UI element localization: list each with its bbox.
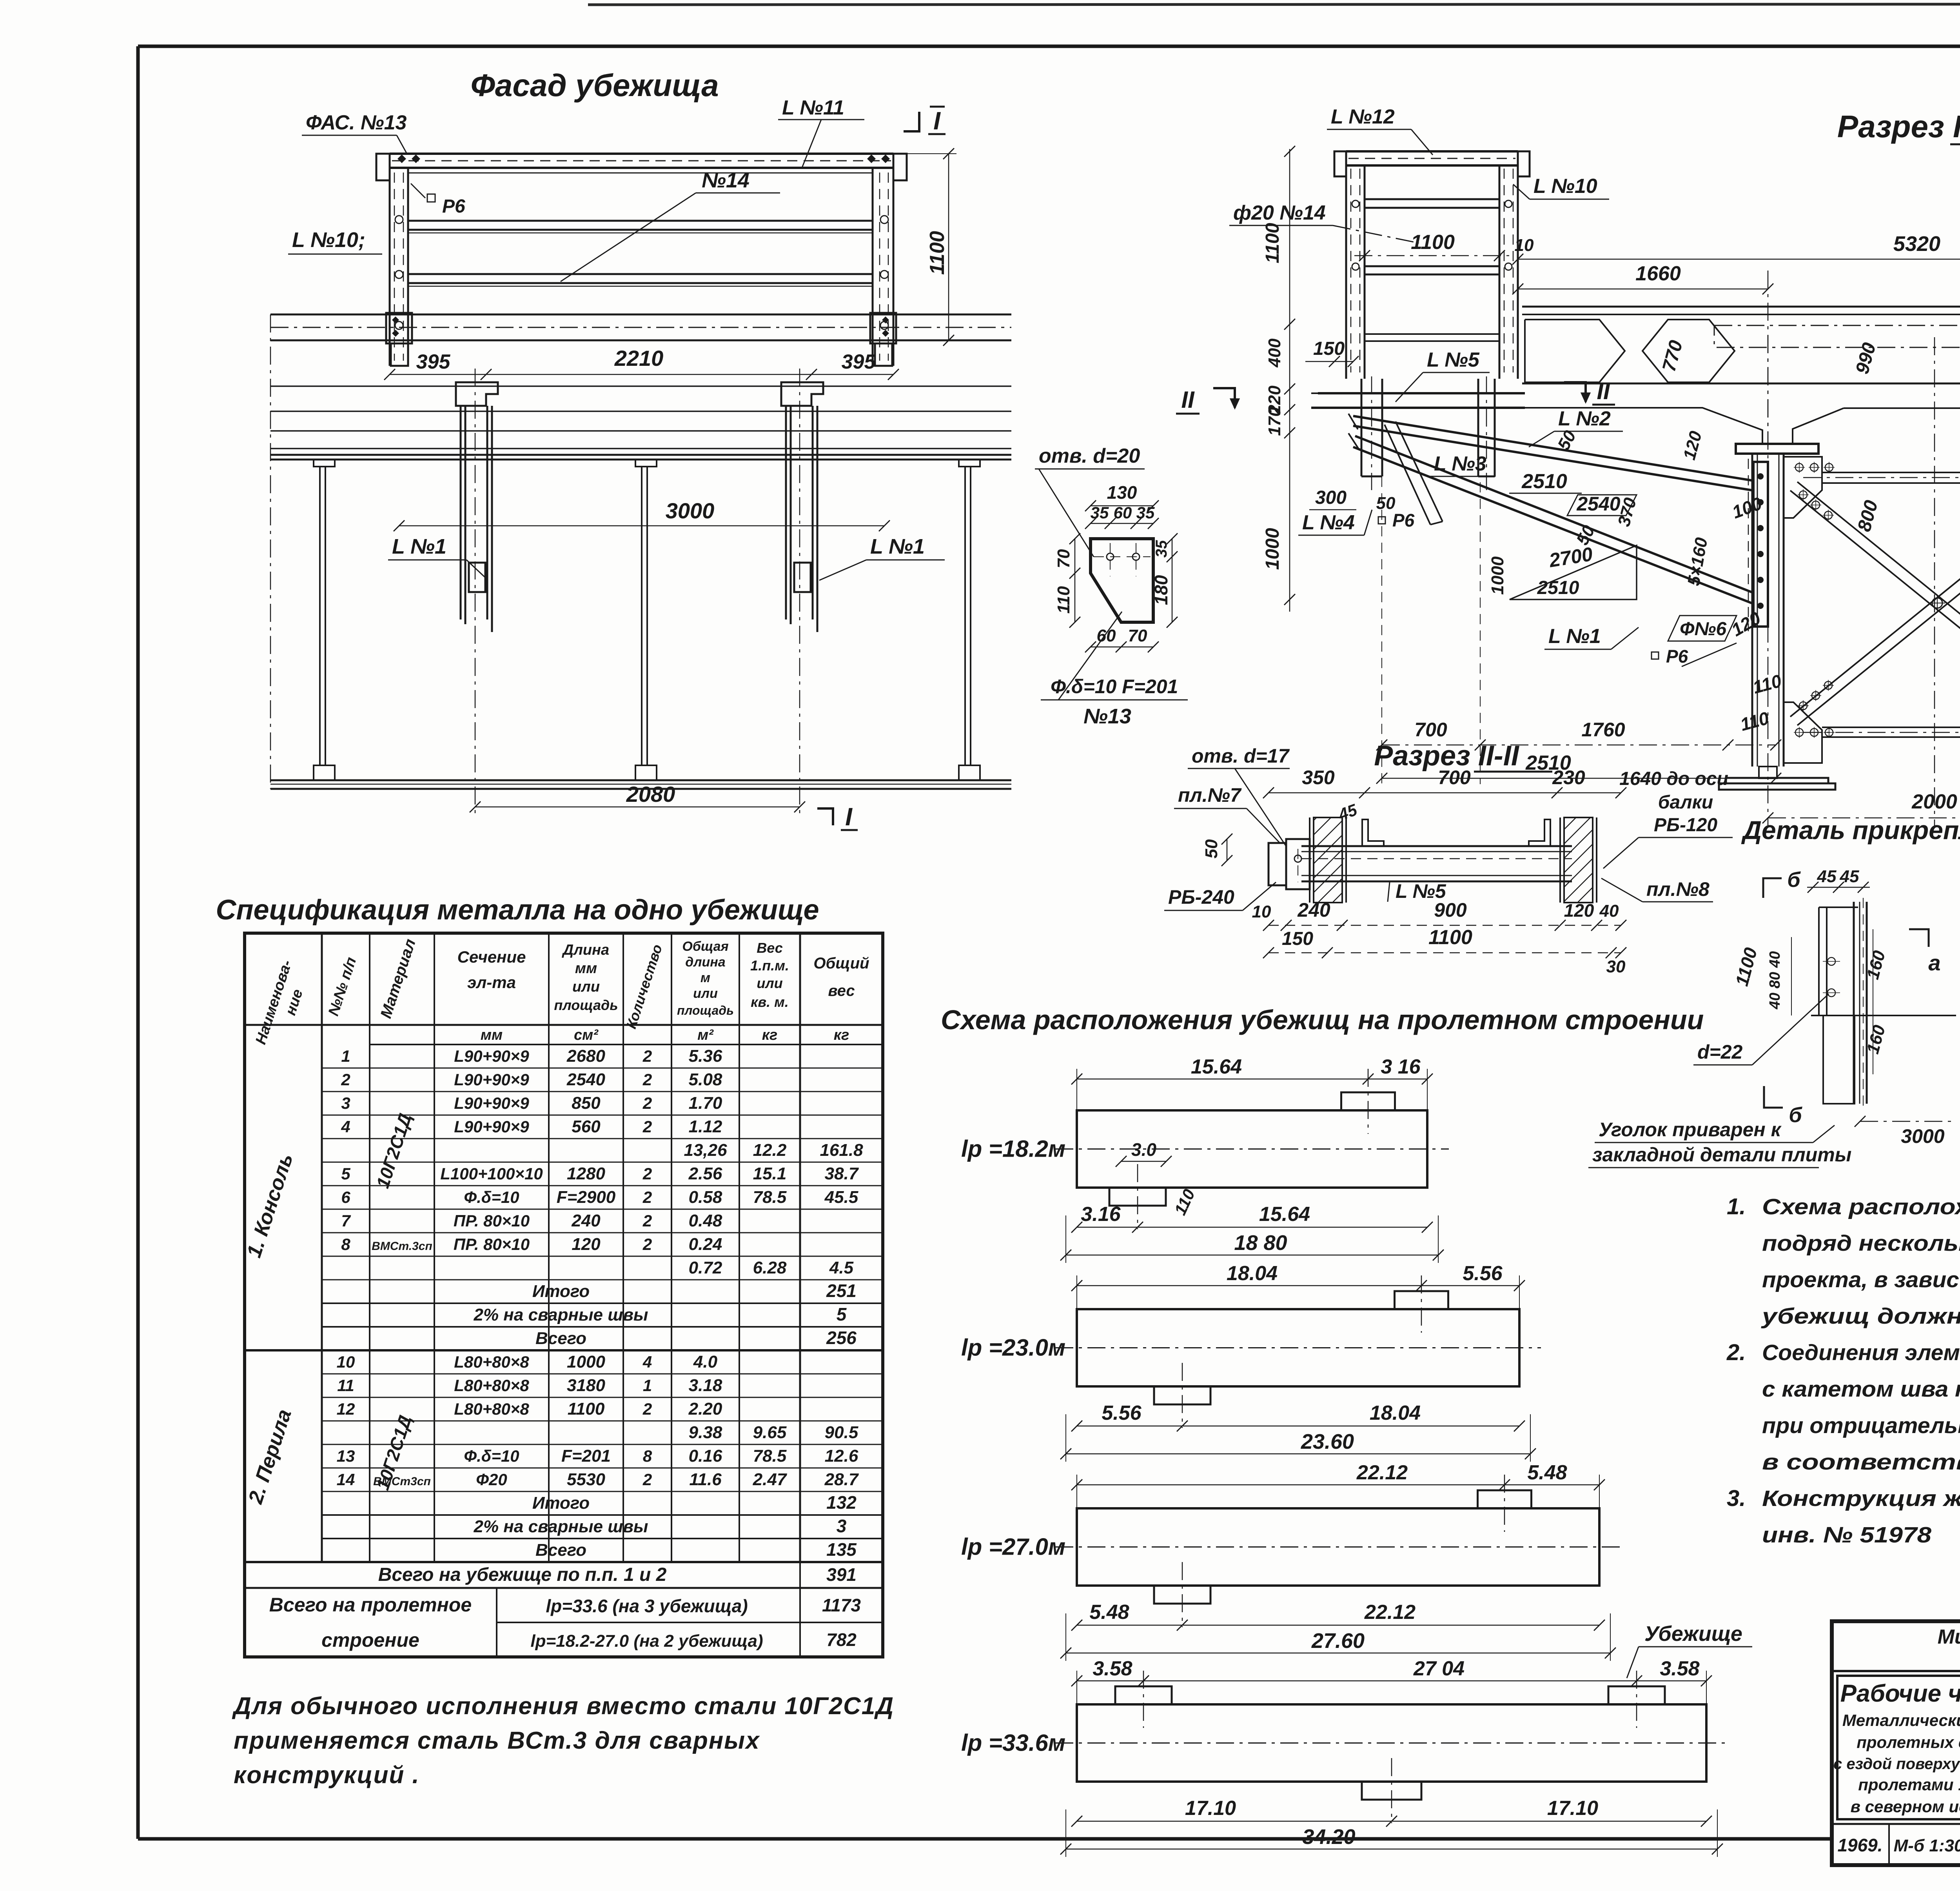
svg-text:2510: 2510	[1521, 470, 1567, 493]
svg-text:2540: 2540	[1576, 493, 1620, 515]
bottom horizontal chord (double)	[1822, 727, 1960, 728]
svg-text:12.6: 12.6	[825, 1446, 858, 1466]
label Р6 with weld square (bracket)	[1378, 517, 1385, 524]
svg-text:L №2: L №2	[1558, 407, 1611, 430]
svg-text:4: 4	[642, 1353, 652, 1371]
dim 5320	[1518, 259, 1960, 260]
left hanger assembly L№1	[456, 382, 498, 406]
table row 10	[322, 1279, 883, 1281]
svg-text:Фасад убежища: Фасад убежища	[470, 68, 719, 103]
left column cap plate	[1736, 444, 1818, 454]
svg-text:5.56: 5.56	[1102, 1402, 1142, 1424]
section mark I (bottom)	[817, 808, 833, 825]
small angle clips on top	[1362, 819, 1384, 846]
svg-text:5: 5	[837, 1304, 847, 1324]
svg-text:б: б	[1789, 1103, 1802, 1127]
svg-text:13,26: 13,26	[684, 1141, 727, 1160]
span centreline	[1055, 1148, 1449, 1150]
svg-text:2.56: 2.56	[688, 1164, 722, 1183]
bottom dim chain 700/1760/110	[1382, 745, 1776, 746]
svg-text:18 80: 18 80	[1234, 1231, 1287, 1255]
table row 20	[322, 1514, 883, 1516]
svg-text:Убежище: Убежище	[1644, 1622, 1742, 1646]
girder web fish outline B	[1642, 320, 1735, 382]
svg-text:1000: 1000	[567, 1352, 605, 1371]
svg-text:в северном исполнении: в северном исполнении	[1851, 1797, 1960, 1816]
svg-text:d=22: d=22	[1697, 1041, 1743, 1063]
svg-text:1760: 1760	[1581, 719, 1625, 741]
svg-text:L90+90×9: L90+90×9	[454, 1094, 529, 1112]
shelter floor between posts	[1365, 333, 1499, 335]
scan artifact line top edge	[588, 4, 1960, 5]
svg-text:2510: 2510	[1537, 578, 1579, 598]
svg-text:40: 40	[1599, 901, 1619, 921]
right hanger assembly L№1	[781, 382, 823, 406]
svg-text:2.: 2.	[1726, 1340, 1746, 1365]
svg-text:Всего: Всего	[535, 1540, 586, 1560]
svg-text:балки: балки	[1658, 792, 1713, 813]
girder web fish outline A	[1525, 320, 1625, 382]
svg-text:35: 35	[1153, 540, 1170, 558]
sheet border frame	[138, 45, 1960, 48]
svg-text:3000: 3000	[666, 498, 715, 523]
column centrelines	[1768, 335, 1769, 827]
svg-text:300: 300	[1315, 487, 1347, 508]
svg-text:3180: 3180	[567, 1376, 605, 1395]
svg-text:700: 700	[1414, 719, 1447, 741]
middle rail 1	[408, 220, 873, 222]
svg-text:1000: 1000	[1488, 556, 1507, 595]
X bracing diagonal 2	[1790, 490, 1960, 725]
svg-text:50: 50	[1376, 494, 1396, 513]
bottom flange lower edge with bearing funnels	[1522, 408, 1762, 444]
svg-text:отв. d=20: отв. d=20	[1039, 445, 1140, 467]
svg-text:L №11: L №11	[782, 96, 844, 119]
svg-text:3 16: 3 16	[1381, 1055, 1421, 1078]
table row 14	[322, 1373, 883, 1375]
svg-text:395: 395	[416, 351, 451, 373]
main girder bottom flange	[1522, 383, 1960, 385]
deck band 3	[270, 430, 1011, 432]
svg-text:9.65: 9.65	[753, 1423, 787, 1442]
overall dimension	[1066, 1255, 1438, 1256]
detail 1: post channel	[1853, 902, 1855, 1104]
svg-text:900: 900	[1434, 899, 1467, 921]
svg-text:8: 8	[341, 1235, 350, 1253]
svg-text:4.5: 4.5	[829, 1258, 854, 1277]
svg-text:6: 6	[341, 1188, 350, 1206]
table row 22	[322, 1561, 883, 1563]
svg-text:Деталь прикрепления стоек п: Деталь прикрепления стоек перил	[1741, 816, 1960, 845]
svg-text:2: 2	[642, 1212, 652, 1230]
right thin hanger post	[959, 460, 980, 467]
svg-text:132: 132	[826, 1492, 857, 1513]
span diagram lp =23.0м	[1077, 1309, 1519, 1386]
svg-text:350: 350	[1302, 767, 1335, 788]
svg-text:Итого: Итого	[532, 1493, 590, 1513]
svg-text:10: 10	[1515, 236, 1534, 255]
svg-text:3.18: 3.18	[689, 1376, 722, 1395]
svg-text:1: 1	[643, 1376, 652, 1395]
svg-text:18.04: 18.04	[1227, 1262, 1278, 1285]
svg-text:№13: №13	[1083, 705, 1131, 728]
table row 11	[322, 1302, 883, 1304]
shelter tab (top)	[1478, 1490, 1532, 1508]
svg-text:б: б	[1787, 868, 1801, 892]
detail 1: bolts	[1828, 957, 1835, 965]
plate №13 outline	[1091, 539, 1153, 622]
svg-text:Ф.δ=10 F=201: Ф.δ=10 F=201	[1051, 676, 1178, 698]
left post corner gusset and bolts	[376, 154, 390, 180]
svg-text:Всего на убежище по п.п.: Всего на убежище по п.п. 1 и 2	[378, 1564, 667, 1585]
plate №13 dim 130	[1091, 505, 1153, 507]
plate №13 dims 70 / 110 (left)	[1074, 539, 1076, 622]
svg-text:0.24: 0.24	[689, 1235, 722, 1254]
svg-text:15.64: 15.64	[1259, 1203, 1310, 1226]
svg-text:lp =23.0м: lp =23.0м	[961, 1335, 1065, 1361]
svg-text:256: 256	[826, 1328, 857, 1348]
svg-text:60: 60	[1114, 503, 1132, 522]
svg-text:инв. № 51978: инв. № 51978	[1762, 1522, 1931, 1548]
main girder top flange	[1522, 306, 1960, 308]
shelter tab (bottom)	[1154, 1586, 1210, 1604]
svg-text:35: 35	[1136, 503, 1155, 522]
svg-text:2.20: 2.20	[688, 1399, 722, 1419]
svg-text:395: 395	[842, 351, 876, 373]
svg-text:12.2: 12.2	[753, 1141, 787, 1160]
row: Всего на убежище по п.п. 1 и 2	[244, 1562, 245, 1562]
svg-text:14: 14	[337, 1470, 355, 1489]
top dimension line	[1077, 1285, 1519, 1286]
svg-text:5.08: 5.08	[689, 1070, 722, 1089]
bottom dim 2510	[1382, 778, 1776, 779]
svg-text:5.56: 5.56	[1463, 1262, 1503, 1285]
span centreline	[1055, 1742, 1728, 1744]
hanger centrelines	[475, 369, 476, 816]
svg-text:ВМСт.3сп: ВМСт.3сп	[372, 1240, 432, 1253]
svg-text:см²: см²	[574, 1027, 599, 1043]
sec I-I right post	[1517, 151, 1519, 379]
svg-text:Итого: Итого	[532, 1282, 590, 1301]
svg-text:L №1: L №1	[870, 535, 925, 558]
left bolt assembly РБ-240	[1269, 843, 1286, 885]
svg-text:30: 30	[1606, 957, 1626, 976]
svg-text:45.5: 45.5	[824, 1188, 858, 1207]
svg-text:2: 2	[642, 1470, 652, 1489]
svg-text:45: 45	[1817, 867, 1837, 886]
middle rail 2	[408, 273, 873, 275]
svg-text:2: 2	[642, 1047, 652, 1065]
left vertical reference lines	[270, 314, 271, 789]
svg-text:L100+100×10: L100+100×10	[440, 1164, 543, 1183]
svg-text:L №10;: L №10;	[292, 228, 365, 252]
svg-text:проекта, в зависимости от об: проекта, в зависимости от общей длины мо…	[1762, 1267, 1960, 1292]
svg-text:3.58: 3.58	[1093, 1657, 1132, 1680]
svg-text:70: 70	[1128, 626, 1147, 645]
left hatched block	[1314, 817, 1342, 903]
detail 1: backing plate	[1818, 907, 1820, 1015]
svg-text:Ф.δ=10: Ф.δ=10	[464, 1188, 519, 1206]
svg-text:Ф.δ=10: Ф.δ=10	[464, 1447, 519, 1465]
svg-text:1100: 1100	[568, 1399, 605, 1419]
svg-text:1100: 1100	[926, 231, 949, 275]
top dimension line	[1077, 1079, 1427, 1080]
svg-text:Схема расположения убежищ д: Схема расположения убежищ дана в предпол…	[1762, 1194, 1960, 1219]
svg-text:кг: кг	[762, 1027, 778, 1043]
shelter tab (top)	[1395, 1291, 1448, 1309]
svg-text:Р6: Р6	[1392, 510, 1415, 530]
svg-text:L80+80×8: L80+80×8	[454, 1376, 529, 1395]
svg-text:1173: 1173	[822, 1595, 861, 1615]
svg-text:110: 110	[1054, 586, 1073, 614]
detail 1: mark б (bottom)	[1764, 1086, 1783, 1108]
svg-text:7: 7	[341, 1212, 351, 1230]
svg-text:L №10: L №10	[1534, 175, 1597, 198]
svg-text:1100: 1100	[1262, 223, 1283, 263]
bottom dimension line	[1077, 1426, 1519, 1427]
svg-text:Р6: Р6	[1666, 646, 1688, 667]
svg-text:90.5: 90.5	[825, 1423, 858, 1442]
svg-text:5320: 5320	[1893, 232, 1940, 256]
svg-text:2680: 2680	[566, 1046, 605, 1066]
svg-text:27 04: 27 04	[1413, 1657, 1465, 1680]
bottom dimension line	[1077, 1625, 1599, 1626]
gusset bolts	[1795, 463, 1803, 471]
table row 17	[322, 1444, 883, 1445]
svg-text:240: 240	[571, 1211, 601, 1230]
svg-text:3.58: 3.58	[1660, 1657, 1699, 1680]
svg-text:0.48: 0.48	[689, 1211, 722, 1230]
span diagram lp =27.0м	[1077, 1508, 1599, 1586]
table row 15	[322, 1397, 883, 1398]
bridge deck top band (facade)	[270, 314, 1011, 316]
svg-text:2080: 2080	[626, 782, 675, 807]
svg-text:70: 70	[1054, 549, 1073, 568]
svg-text:5530: 5530	[567, 1470, 605, 1489]
centre bolt	[1932, 598, 1942, 608]
svg-text:lp =18.2м: lp =18.2м	[961, 1136, 1065, 1162]
svg-text:L №1: L №1	[1548, 625, 1601, 648]
left column shaft	[1751, 454, 1753, 767]
svg-text:15.1: 15.1	[753, 1164, 787, 1183]
spec table outer box	[245, 933, 883, 1657]
shelter tab (top)	[1115, 1686, 1172, 1704]
svg-text:180: 180	[1151, 575, 1171, 605]
svg-text:2: 2	[642, 1094, 652, 1112]
svg-text:F=201: F=201	[561, 1446, 611, 1466]
title block outer box	[1832, 1621, 1960, 1865]
detail 1: deck line	[1811, 1015, 1956, 1016]
svg-text:при отрицательной температур: при отрицательной температуре все работы…	[1762, 1413, 1960, 1438]
svg-text:Всего: Всего	[535, 1329, 586, 1348]
dash-dot splice rectangle	[1714, 325, 1960, 347]
post stubs below deck	[391, 343, 408, 366]
svg-text:0.16: 0.16	[689, 1446, 722, 1466]
dim 1100 (right side, vertical)	[948, 154, 949, 340]
svg-text:1969.: 1969.	[1837, 1835, 1882, 1855]
overall dimension	[1066, 1653, 1610, 1654]
svg-text:Общий: Общий	[813, 955, 869, 972]
top dimension line	[1077, 1680, 1706, 1682]
middle thin hanger post	[635, 460, 657, 467]
svg-text:в соответствии с требования: в соответствии с требованиями СН 363-66.	[1762, 1450, 1960, 1475]
svg-text:Р6: Р6	[442, 196, 465, 217]
svg-text:строение: строение	[321, 1629, 419, 1651]
svg-text:18.04: 18.04	[1370, 1402, 1421, 1424]
svg-text:11: 11	[337, 1376, 354, 1395]
overall dimension	[1066, 1849, 1717, 1850]
svg-text:170: 170	[1265, 407, 1284, 436]
svg-text:161.8: 161.8	[820, 1141, 863, 1160]
svg-text:2% на сварные швы: 2% на сварные швы	[473, 1305, 648, 1324]
svg-text:Ф20: Ф20	[476, 1470, 507, 1489]
svg-text:10: 10	[1252, 902, 1271, 921]
svg-text:17.10: 17.10	[1185, 1797, 1236, 1820]
svg-text:3.16: 3.16	[1081, 1203, 1121, 1226]
bottom dimension line	[1077, 1821, 1706, 1822]
svg-text:ф20 №14: ф20 №14	[1233, 202, 1326, 224]
svg-text:1.12: 1.12	[689, 1117, 722, 1136]
overall dimension	[1066, 1453, 1530, 1455]
svg-text:230: 230	[1552, 767, 1585, 788]
svg-text:50: 50	[1202, 839, 1221, 858]
table row 16	[322, 1421, 883, 1422]
svg-text:3: 3	[341, 1094, 350, 1112]
svg-text:9.38: 9.38	[689, 1423, 722, 1442]
svg-text:2: 2	[642, 1235, 652, 1253]
svg-text:пл.№8: пл.№8	[1646, 878, 1710, 900]
bracket bottom chord L№1 (double)	[1355, 436, 1753, 593]
left vertical dim chain	[1289, 149, 1290, 612]
detail 1: mark б (top)	[1763, 878, 1782, 898]
table row 8	[322, 1232, 883, 1233]
sec I-I left post	[1345, 151, 1347, 379]
svg-text:РБ-240: РБ-240	[1168, 886, 1234, 908]
svg-text:1640 до оси: 1640 до оси	[1619, 768, 1728, 789]
table row 6	[322, 1185, 883, 1186]
svg-text:34.20: 34.20	[1302, 1825, 1355, 1849]
svg-text:Рабочие чертежи: Рабочие чертежи	[1840, 1680, 1960, 1707]
svg-text:Общая: Общая	[682, 939, 728, 954]
mid vertical centreline	[1934, 337, 1935, 827]
shelter tab (top)	[1341, 1092, 1395, 1110]
svg-text:0.72: 0.72	[689, 1258, 722, 1277]
detail 1: mark a (right)	[1909, 929, 1929, 947]
svg-text:Всего на пролетное: Всего на пролетное	[269, 1594, 472, 1616]
svg-text:L90+90×9: L90+90×9	[454, 1070, 529, 1089]
svg-text:10: 10	[337, 1353, 355, 1371]
svg-text:I: I	[933, 107, 941, 135]
span diagram lp =18.2м	[1077, 1110, 1427, 1188]
svg-text:391: 391	[826, 1564, 857, 1585]
table row 18	[322, 1468, 883, 1469]
svg-text:кг: кг	[834, 1027, 849, 1043]
svg-text:150: 150	[1282, 928, 1313, 949]
svg-text:убежищ должно назначаться в: убежищ должно назначаться в соответствии…	[1760, 1304, 1960, 1329]
svg-text:I: I	[845, 803, 853, 831]
svg-text:lp =33.6м: lp =33.6м	[961, 1730, 1065, 1756]
svg-text:вес: вес	[828, 982, 855, 999]
sec II-II bottom dims 150/1100/30	[1269, 952, 1621, 954]
svg-text:М-б 1:30: М-б 1:30	[1894, 1836, 1960, 1855]
left base plates	[1726, 778, 1828, 783]
svg-text:130: 130	[1107, 482, 1137, 503]
svg-text:40 80 40: 40 80 40	[1767, 951, 1783, 1010]
svg-text:длина: длина	[685, 955, 725, 970]
shelter tab (bottom)	[1109, 1188, 1166, 1206]
svg-text:lp=33.6 (на 3 убежища): lp=33.6 (на 3 убежища)	[546, 1596, 748, 1616]
svg-text:2: 2	[642, 1117, 652, 1136]
svg-text:пл.№7: пл.№7	[1178, 784, 1242, 806]
bracket gusset strut	[1385, 425, 1430, 525]
deck band 2	[270, 385, 1011, 387]
group separators	[245, 1349, 883, 1351]
svg-text:Уголок приварен к: Уголок приварен к	[1599, 1119, 1782, 1141]
svg-text:1.п.м.: 1.п.м.	[750, 957, 789, 974]
svg-text:5.36: 5.36	[689, 1046, 722, 1066]
sec II-II bottom dims 10/240/900/120/40	[1269, 925, 1621, 926]
plate №13 dims 60 70 (bottom)	[1091, 647, 1153, 648]
table row 13	[322, 1350, 883, 1351]
svg-text:L90+90×9: L90+90×9	[454, 1047, 529, 1065]
table row 1	[322, 1068, 883, 1069]
svg-text:применяется сталь ВСт.3 для: применяется сталь ВСт.3 для сварных	[234, 1727, 760, 1754]
table row 19	[322, 1491, 883, 1492]
svg-text:конструкций .: конструкций .	[234, 1762, 420, 1789]
svg-text:L90+90×9: L90+90×9	[454, 1117, 529, 1136]
svg-text:Спецификация металла на одн: Спецификация металла на одно убежище	[216, 894, 819, 926]
plate №13 dims 35 / 180 (right)	[1172, 539, 1173, 622]
svg-text:5.48: 5.48	[1089, 1601, 1129, 1624]
X bracing diagonal 1	[1790, 482, 1960, 717]
dim 395 / 2210 / 395	[390, 374, 893, 375]
plate №13 bolt holes	[1107, 553, 1114, 560]
dim 1660	[1518, 289, 1768, 290]
svg-text:с ездой поверху на балласте: с ездой поверху на балласте	[1833, 1755, 1960, 1773]
label Р6 with weld square (lower)	[1651, 652, 1659, 659]
svg-text:Схема расположения убежищ н: Схема расположения убежищ на пролетном с…	[941, 1005, 1704, 1035]
svg-text:пролетами 18.2-66.0м: пролетами 18.2-66.0м	[1858, 1775, 1960, 1794]
rows: Всего на пролетное строение	[496, 1588, 497, 1657]
svg-text:251: 251	[826, 1281, 857, 1301]
svg-text:или: или	[757, 975, 782, 991]
shelter tab (top)	[1608, 1686, 1665, 1704]
svg-text:13: 13	[337, 1447, 355, 1465]
post base blocks at deck	[386, 313, 412, 343]
top handrail band	[390, 153, 893, 155]
svg-text:15.64: 15.64	[1191, 1055, 1242, 1078]
svg-text:мм: мм	[575, 960, 597, 977]
span centreline	[1055, 1347, 1541, 1348]
sec I-I railing top band	[1346, 150, 1518, 153]
table row 5	[322, 1162, 883, 1163]
svg-text:2: 2	[642, 1188, 652, 1206]
svg-text:2: 2	[642, 1400, 652, 1418]
svg-text:1: 1	[341, 1047, 350, 1065]
detail 1: dim 3000	[1860, 1121, 1956, 1122]
svg-text:L №12: L №12	[1331, 105, 1395, 128]
top-left gusset plate	[1784, 457, 1822, 518]
svg-text:38.7: 38.7	[825, 1164, 859, 1183]
bracket top chord L№2 (double)	[1353, 416, 1753, 481]
svg-text:35: 35	[1091, 503, 1109, 522]
svg-text:L №3: L №3	[1434, 452, 1486, 475]
svg-text:II: II	[1181, 387, 1195, 413]
svg-text:120: 120	[1564, 900, 1594, 921]
svg-text:мм: мм	[481, 1027, 503, 1043]
section mark II (left)	[1213, 388, 1235, 408]
deck girder bottom flange (thick band)	[270, 454, 1011, 456]
